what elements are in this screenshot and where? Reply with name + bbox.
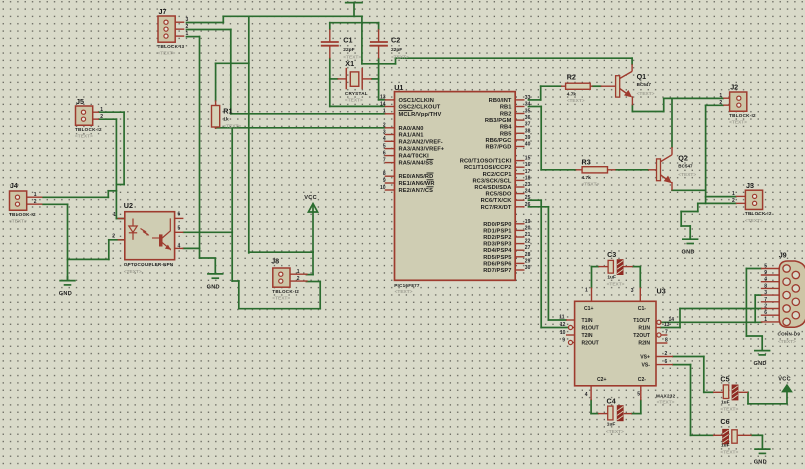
- svg-text:R2OUT: R2OUT: [582, 341, 600, 347]
- svg-text:<TEXT>: <TEXT>: [124, 269, 142, 275]
- wire R2 to Q1 base link: [593, 85, 601, 87]
- svg-text:X1: X1: [345, 59, 354, 68]
- svg-text:2: 2: [112, 234, 115, 240]
- svg-text:1: 1: [585, 288, 588, 294]
- svg-text:1: 1: [186, 31, 189, 37]
- svg-text:TBLOCK-I2: TBLOCK-I2: [729, 113, 756, 118]
- svg-text:22: 22: [525, 239, 531, 245]
- svg-text:2: 2: [297, 276, 300, 282]
- svg-text:RC6/TX/CK: RC6/TX/CK: [481, 198, 513, 204]
- svg-text:29: 29: [525, 258, 531, 264]
- svg-text:<TEXT>: <TEXT>: [606, 429, 624, 435]
- capacitor C6: [713, 417, 752, 456]
- wire VS+ to C5: [673, 357, 713, 393]
- svg-text:R1IN: R1IN: [638, 326, 650, 332]
- svg-text:TBLOCK-I2: TBLOCK-I2: [745, 211, 772, 216]
- svg-text:<TEXT>: <TEXT>: [9, 219, 27, 225]
- wire C1 top to C2 top: [330, 23, 379, 30]
- svg-text:10: 10: [380, 185, 386, 191]
- svg-text:OPTOCOUPLER-NPN: OPTOCOUPLER-NPN: [124, 262, 174, 267]
- svg-text:23: 23: [525, 182, 531, 188]
- svg-text:C5: C5: [720, 374, 729, 383]
- svg-text:13: 13: [664, 322, 670, 328]
- wire J5 pin1 down: [99, 112, 124, 184]
- ground near J9: [754, 336, 770, 355]
- svg-text:<TEXT>: <TEXT>: [607, 281, 625, 287]
- svg-text:BC547: BC547: [637, 82, 652, 87]
- svg-text:RB6/PGC: RB6/PGC: [486, 138, 512, 144]
- wire J7 pin1 to ground: [187, 37, 216, 258]
- svg-text:<TEXT>: <TEXT>: [567, 98, 585, 104]
- connector J3 (TBLOCK-I2): [732, 181, 772, 224]
- svg-text:8: 8: [665, 338, 668, 344]
- wire U2 pin4 to ground: [183, 247, 199, 249]
- svg-text:8: 8: [764, 283, 767, 289]
- svg-text:J4: J4: [10, 181, 18, 190]
- svg-text:RC0/T1OSO/T1CKI: RC0/T1OSO/T1CKI: [460, 159, 512, 165]
- svg-text:2: 2: [719, 100, 722, 106]
- svg-text:RC7/RX/DT: RC7/RX/DT: [481, 205, 512, 211]
- capacitor C5: [713, 374, 748, 412]
- svg-text:<TEXT>: <TEXT>: [391, 54, 409, 60]
- svg-text:VCC: VCC: [778, 376, 791, 382]
- svg-text:<TEXT>: <TEXT>: [778, 339, 796, 345]
- connector J7 (TBLOCK-I3): [158, 7, 189, 57]
- svg-text:15: 15: [525, 156, 531, 162]
- connector J8 (TBLOCK-I2): [271, 256, 307, 301]
- wire J4 pin1 join: [43, 191, 116, 198]
- wire ground branch to U2 pin2: [68, 240, 125, 260]
- svg-text:2: 2: [764, 304, 767, 310]
- transistor Q1 (BC547): [601, 64, 655, 105]
- svg-text:8: 8: [383, 171, 386, 177]
- svg-text:<TEXT>: <TEXT>: [678, 172, 696, 178]
- svg-text:5: 5: [637, 392, 640, 398]
- resistor R3: [576, 158, 616, 188]
- svg-text:18: 18: [525, 175, 531, 181]
- svg-text:RD6/PSP6: RD6/PSP6: [483, 261, 511, 267]
- svg-text:1: 1: [383, 109, 386, 115]
- svg-text:4: 4: [585, 392, 588, 398]
- svg-text:RE2/AN7/CS: RE2/AN7/CS: [399, 188, 434, 194]
- svg-text:C2-: C2-: [638, 377, 647, 383]
- svg-text:5: 5: [383, 143, 386, 149]
- wire J3 pin1 link: [706, 196, 736, 198]
- svg-text:C1+: C1+: [584, 306, 594, 312]
- svg-text:U1: U1: [394, 83, 403, 92]
- wire RA0 line: [216, 127, 385, 129]
- svg-text:RC1/T1OSI/CCP2: RC1/T1OSI/CCP2: [464, 165, 512, 171]
- svg-text:CONN-D9: CONN-D9: [778, 332, 801, 337]
- svg-text:<TEXT>: <TEXT>: [729, 120, 747, 126]
- svg-text:RA3/AN3/VREF+: RA3/AN3/VREF+: [399, 147, 445, 153]
- svg-text:BC547: BC547: [678, 163, 693, 168]
- svg-text:RE0/AN5/RD: RE0/AN5/RD: [399, 174, 434, 180]
- svg-text:R1: R1: [223, 107, 232, 116]
- power VCC near C5: [783, 385, 792, 404]
- svg-text:5: 5: [178, 225, 181, 231]
- svg-text:U2: U2: [124, 201, 133, 210]
- wire Q1 emitter to J2 pin1: [632, 98, 723, 111]
- wire C1 bottom to OSC2: [330, 59, 385, 107]
- svg-text:RC3/SCK/SCL: RC3/SCK/SCL: [472, 178, 511, 184]
- svg-text:13: 13: [380, 95, 386, 101]
- svg-text:<TEXT>: <TEXT>: [395, 289, 413, 295]
- svg-text:7: 7: [764, 297, 767, 303]
- svg-text:RE1/AN6/WR: RE1/AN6/WR: [399, 181, 435, 187]
- transistor Q2 (BC547): [648, 147, 696, 190]
- svg-text:27: 27: [525, 245, 531, 251]
- svg-text:14: 14: [380, 101, 386, 107]
- connector J9 (CONN-D9): [761, 251, 805, 346]
- svg-text:<TEXT>: <TEXT>: [582, 181, 600, 187]
- wire J4 pin2 to ground: [43, 204, 68, 280]
- wire RB1 to R3: [529, 107, 576, 170]
- svg-text:Q2: Q2: [678, 154, 688, 163]
- svg-text:J9: J9: [779, 251, 787, 260]
- svg-text:R3: R3: [582, 158, 591, 167]
- svg-text:1k: 1k: [223, 117, 229, 123]
- wire RC7 RX to T1IN: [529, 207, 567, 320]
- svg-text:17: 17: [525, 169, 531, 175]
- power VCC above J8: [308, 204, 317, 253]
- svg-text:7: 7: [383, 157, 386, 163]
- svg-text:<TEXT>: <TEXT>: [720, 407, 738, 413]
- wire J2 pin2 down: [706, 105, 724, 203]
- wire R3 to Q2 base link: [616, 169, 649, 171]
- svg-text:R2: R2: [567, 72, 576, 81]
- svg-text:1: 1: [719, 93, 722, 99]
- ground near C6: [754, 435, 770, 453]
- connector J2 (TBLOCK-I2): [719, 83, 756, 126]
- svg-text:RB7/PGD: RB7/PGD: [486, 145, 512, 151]
- svg-text:11: 11: [559, 314, 565, 320]
- svg-text:TBLOCK-I2: TBLOCK-I2: [9, 212, 36, 217]
- svg-text:4: 4: [178, 243, 181, 249]
- svg-text:J2: J2: [730, 83, 738, 92]
- wire T1OUT to J9 pin3: [661, 295, 762, 322]
- svg-text:RA5/AN4/SS: RA5/AN4/SS: [399, 161, 434, 167]
- capacitor C1: [321, 29, 362, 60]
- svg-text:36: 36: [525, 115, 531, 121]
- svg-text:7: 7: [665, 330, 668, 336]
- svg-text:1uF: 1uF: [721, 443, 730, 449]
- wire R1IN to J9 pin2: [661, 309, 762, 328]
- svg-text:T2OUT: T2OUT: [633, 333, 651, 339]
- svg-text:22pF: 22pF: [343, 47, 354, 53]
- svg-text:MCLR/Vpp/THV: MCLR/Vpp/THV: [399, 112, 442, 118]
- svg-text:OSC2/CLKOUT: OSC2/CLKOUT: [399, 105, 441, 111]
- svg-text:J7: J7: [159, 7, 167, 16]
- svg-text:MAX232: MAX232: [656, 393, 676, 398]
- svg-text:4: 4: [764, 277, 767, 283]
- svg-text:<TEXT>: <TEXT>: [657, 400, 675, 406]
- svg-text:GND: GND: [754, 361, 767, 367]
- svg-text:RD1/PSP1: RD1/PSP1: [483, 228, 511, 234]
- svg-text:T2IN: T2IN: [582, 333, 593, 339]
- svg-text:<TEXT>: <TEXT>: [345, 98, 363, 104]
- svg-text:C4: C4: [607, 396, 616, 405]
- svg-text:6: 6: [178, 211, 181, 217]
- wire RC6 TX to R1OUT: [529, 200, 569, 327]
- svg-text:RB1: RB1: [500, 105, 512, 111]
- svg-text:21: 21: [525, 232, 531, 238]
- svg-text:RA4/T0CKI: RA4/T0CKI: [399, 154, 430, 160]
- svg-text:40: 40: [525, 142, 531, 148]
- capacitor C4: [598, 396, 632, 435]
- wire C4 right riser: [632, 400, 641, 413]
- svg-text:9: 9: [764, 270, 767, 276]
- svg-text:6: 6: [383, 150, 386, 156]
- wire VCC bus vertical: [248, 16, 250, 253]
- connector J5 (TBLOCK-I2): [75, 97, 103, 140]
- svg-text:4.7k: 4.7k: [582, 175, 592, 181]
- wire RB0 to R2: [529, 86, 562, 100]
- svg-text:9: 9: [383, 178, 386, 184]
- svg-text:2: 2: [383, 123, 386, 129]
- svg-text:26: 26: [525, 202, 531, 208]
- svg-text:J3: J3: [746, 181, 754, 190]
- svg-text:RA1/AN1: RA1/AN1: [399, 133, 424, 139]
- svg-text:TBLOCK-I2: TBLOCK-I2: [75, 127, 102, 132]
- svg-text:GND: GND: [59, 291, 72, 297]
- capacitor C3: [598, 250, 632, 287]
- svg-text:38: 38: [525, 128, 531, 134]
- wire U2 pin5 riser / J8 pin2 loop: [183, 128, 320, 309]
- svg-text:J8: J8: [271, 256, 279, 265]
- svg-text:RD4/PSP4: RD4/PSP4: [483, 248, 512, 254]
- ground near Q2: [682, 236, 698, 244]
- svg-text:9: 9: [562, 337, 565, 343]
- svg-text:RD7/PSP7: RD7/PSP7: [483, 268, 511, 274]
- svg-text:<TEXT>: <TEXT>: [745, 218, 763, 224]
- svg-text:C6: C6: [720, 417, 729, 426]
- svg-text:C1: C1: [343, 36, 352, 45]
- svg-text:37: 37: [525, 122, 531, 128]
- svg-text:<TEXT>: <TEXT>: [637, 91, 655, 97]
- wire VS- to C6: [673, 365, 713, 436]
- svg-text:Q1: Q1: [637, 72, 647, 81]
- svg-text:RB4: RB4: [500, 125, 512, 131]
- svg-text:1: 1: [113, 212, 116, 218]
- svg-text:RD3/PSP3: RD3/PSP3: [483, 242, 511, 248]
- svg-text:1: 1: [764, 317, 767, 323]
- svg-text:GND: GND: [682, 250, 695, 256]
- wire C4 left riser: [591, 400, 598, 413]
- wire J3 pin2 to ground stair: [681, 203, 736, 238]
- IC U1 (PIC16F877): [380, 83, 531, 295]
- svg-text:RC2/CCP1: RC2/CCP1: [483, 172, 512, 178]
- svg-text:25: 25: [525, 195, 531, 201]
- svg-text:OSC1/CLKIN: OSC1/CLKIN: [399, 98, 434, 104]
- svg-text:22pF: 22pF: [391, 47, 402, 53]
- wire J7 pin3 to oscillator / Q1 collector: [187, 16, 633, 64]
- svg-text:39: 39: [525, 135, 531, 141]
- svg-text:PIC16F877: PIC16F877: [394, 283, 420, 288]
- svg-text:1: 1: [297, 269, 300, 275]
- svg-text:3: 3: [186, 17, 189, 23]
- wire C3 right riser: [633, 267, 641, 288]
- svg-text:C3: C3: [607, 250, 616, 259]
- svg-text:<TEXT>: <TEXT>: [223, 123, 241, 129]
- ground near U2: [207, 258, 223, 278]
- svg-text:3: 3: [764, 290, 767, 296]
- svg-text:T1IN: T1IN: [582, 318, 593, 324]
- svg-text:GND: GND: [754, 460, 767, 466]
- svg-text:CRYSTAL: CRYSTAL: [345, 91, 368, 96]
- svg-text:1: 1: [732, 191, 735, 197]
- svg-text:1: 1: [34, 192, 37, 198]
- wire C2 bottom to OSC1: [372, 59, 385, 100]
- svg-text:2: 2: [34, 199, 37, 205]
- svg-text:2: 2: [100, 114, 103, 120]
- svg-text:6: 6: [665, 359, 668, 365]
- resistor R1: [212, 100, 242, 129]
- connector J4 (TBLOCK-I2): [9, 181, 42, 224]
- svg-text:33: 33: [525, 95, 531, 101]
- wire Q1 collector link: [631, 58, 633, 64]
- svg-text:2: 2: [186, 24, 189, 30]
- svg-text:10: 10: [560, 330, 566, 336]
- svg-text:RD2/PSP2: RD2/PSP2: [483, 235, 511, 241]
- wire Q2 emitter link: [672, 189, 706, 191]
- svg-text:R1OUT: R1OUT: [582, 326, 600, 332]
- wire C5 to VCC: [748, 392, 787, 404]
- svg-text:35: 35: [525, 109, 531, 115]
- svg-text:3: 3: [383, 129, 386, 135]
- capacitor C2: [370, 29, 409, 60]
- svg-text:30: 30: [525, 265, 531, 271]
- svg-text:5: 5: [764, 264, 767, 270]
- svg-text:TBLOCK-I2: TBLOCK-I2: [272, 289, 299, 294]
- svg-text:RD5/PSP5: RD5/PSP5: [483, 255, 511, 261]
- svg-text:C2: C2: [391, 36, 400, 45]
- resistor R2: [561, 72, 593, 104]
- ground near J4: [59, 276, 75, 285]
- svg-text:4: 4: [383, 136, 386, 142]
- svg-text:20: 20: [525, 225, 531, 231]
- svg-text:RB0/INT: RB0/INT: [489, 98, 512, 104]
- svg-text:2: 2: [665, 351, 668, 357]
- wire Q2 collector riser: [671, 98, 673, 147]
- svg-text:4.7k: 4.7k: [567, 91, 577, 97]
- svg-text:TBLOCK-I3: TBLOCK-I3: [158, 44, 185, 49]
- svg-text:RB2: RB2: [500, 112, 512, 118]
- svg-text:VS-: VS-: [642, 363, 651, 369]
- wire J9 pin5 to ground: [746, 269, 762, 337]
- wire R1 top to bus: [216, 63, 249, 100]
- svg-text:34: 34: [525, 102, 531, 108]
- svg-text:<TEXT>: <TEXT>: [272, 296, 290, 302]
- svg-text:16: 16: [525, 162, 531, 168]
- IC U3 (MAX232): [559, 287, 675, 406]
- wire C3 left riser: [592, 267, 599, 288]
- crystal X1: [337, 59, 371, 104]
- svg-text:U3: U3: [657, 287, 666, 296]
- wire J5 pin2 to U2 pin1: [99, 119, 125, 218]
- wire C6 to ground: [752, 434, 763, 436]
- svg-text:28: 28: [525, 252, 531, 258]
- wire J7 pin2 to MCLR: [187, 30, 385, 114]
- svg-text:GND: GND: [207, 284, 220, 290]
- optocoupler U2: [112, 201, 183, 275]
- svg-text:RB3/PGM: RB3/PGM: [485, 118, 512, 124]
- svg-text:12: 12: [560, 322, 566, 328]
- svg-text:6: 6: [764, 310, 767, 316]
- svg-text:T1OUT: T1OUT: [633, 318, 651, 324]
- svg-text:1: 1: [100, 107, 103, 113]
- svg-text:J5: J5: [76, 97, 84, 106]
- svg-text:<TEXT>: <TEXT>: [75, 134, 93, 140]
- svg-text:1uF: 1uF: [721, 400, 730, 406]
- svg-text:C2+: C2+: [597, 377, 607, 383]
- svg-text:2: 2: [732, 198, 735, 204]
- svg-text:RD0/PSP0: RD0/PSP0: [483, 222, 511, 228]
- svg-text:VCC: VCC: [304, 195, 317, 201]
- svg-text:19: 19: [525, 219, 531, 225]
- svg-text:RA2/AN2/VREF-: RA2/AN2/VREF-: [399, 139, 443, 145]
- wire bus to J8 pin1 via VCC stem: [249, 252, 313, 274]
- svg-text:RC4/SDI/SDA: RC4/SDI/SDA: [474, 185, 511, 191]
- svg-text:R2IN: R2IN: [638, 341, 650, 347]
- svg-text:RA0/AN0: RA0/AN0: [399, 126, 424, 132]
- svg-text:C1-: C1-: [638, 306, 647, 312]
- svg-text:1uF: 1uF: [607, 274, 616, 280]
- wire top T-bar stub: [346, 3, 362, 17]
- svg-text:VS+: VS+: [640, 355, 650, 361]
- svg-text:24: 24: [525, 189, 531, 195]
- svg-text:1uF: 1uF: [607, 422, 616, 428]
- svg-text:<TEXT>: <TEXT>: [720, 450, 738, 456]
- svg-text:RC5/SDO: RC5/SDO: [486, 192, 512, 198]
- svg-text:<TEXT>: <TEXT>: [158, 51, 176, 57]
- svg-text:3: 3: [631, 288, 634, 294]
- svg-text:RB5: RB5: [500, 131, 512, 137]
